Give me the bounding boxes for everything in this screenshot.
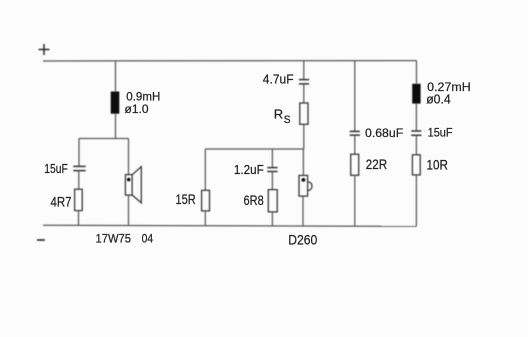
wire: inductor to woofer junction bar [115,114,117,139]
wire: capacitor 0.68uF to resistor 22R [354,135,356,154]
wire: top rail corner down to inductor 0.27mH [416,61,418,84]
wire: tweeter to bottom rail [302,196,304,226]
wire: top rail to capacitor 4.7uF [303,61,305,79]
resistor 15R [202,190,210,211]
wire: bar down to woofer [128,139,130,175]
woofer speaker symbol [125,167,141,203]
wire: mid bar down to tweeter [302,149,304,175]
capacitor 0.68uF [350,131,360,135]
svg-text:17W75: 17W75 [96,231,132,245]
wire: capacitor 15uF to resistor 10R [415,135,417,155]
wire: resistor 10R to bottom rail [415,175,417,226]
svg-text:D260: D260 [288,231,317,247]
wire: top rail to inductor 0.9mH [115,61,117,92]
capacitor 15uF (woofer branch) [73,166,85,170]
capacitor 1.2uF [267,168,277,172]
wire: top rail to capacitor 0.68uF [354,61,356,131]
tweeter speaker symbol [299,175,312,196]
wire: resistor 15R to bottom rail [204,211,206,226]
top rail wire [43,60,417,62]
capacitor 15uF (tweeter shunt) [411,131,421,135]
resistor 22R [351,154,359,175]
wire: capacitor 1.2uF to resistor 6R8 [271,172,273,190]
wire: inductor 0.27mH to capacitor 15uF [415,104,417,131]
wire: resistor 4R7 to bottom rail [78,211,80,226]
inductor 0.9mH [111,92,120,114]
bottom rail wire [43,225,417,226]
resistor 10R [412,155,420,175]
svg-text:4R7: 4R7 [51,194,72,210]
svg-text:10R: 10R [427,158,449,173]
resistor 4R7 [75,189,83,210]
resistor RS [300,103,308,124]
inductor 0.27mH [412,84,420,104]
svg-text:04: 04 [142,232,154,246]
plus terminal [39,44,50,55]
svg-text:15uF: 15uF [44,161,68,176]
wire: woofer section junction bar [79,138,129,140]
svg-text:4.7uF: 4.7uF [263,72,294,87]
svg-text:22R: 22R [366,156,387,172]
svg-text:6R8: 6R8 [244,192,264,208]
wire: resistor 22R to bottom rail [354,175,356,226]
wire: mid junction bar [205,148,303,150]
svg-text:0.68uF: 0.68uF [365,126,403,140]
svg-text:S: S [284,114,291,126]
svg-text:R: R [274,107,283,122]
resistor 6R8 [268,190,277,212]
svg-text:ø1.0: ø1.0 [125,102,149,116]
svg-text:1.2uF: 1.2uF [234,162,264,177]
svg-text:ø0.4: ø0.4 [426,92,451,106]
wire: mid bar down to capacitor 1.2uF [271,149,273,167]
svg-text:15uF: 15uF [428,128,453,140]
wire: capacitor 15uF to resistor 4R7 [78,171,80,190]
minus terminal [37,239,45,241]
wire: resistor 6R8 to bottom rail [271,212,273,226]
wire: resistor RS to mid junction bar [303,124,305,149]
wire: mid bar down to resistor 15R [204,149,206,190]
wire: bar down to capacitor 15uF [78,139,80,167]
wire: woofer to bottom rail [128,195,130,226]
wire: capacitor 4.7uF to resistor RS [303,84,305,103]
svg-text:15R: 15R [176,191,196,207]
capacitor 4.7uF [299,80,309,84]
